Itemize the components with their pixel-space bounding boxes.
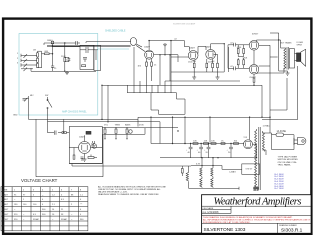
wire primary to switch	[262, 133, 294, 155]
wire input mix	[38, 51, 45, 68]
capacitor C8	[189, 144, 193, 158]
resistor R27	[243, 58, 245, 68]
svg-text:1M: 1M	[193, 61, 196, 63]
note blue voltage list	[275, 174, 285, 190]
svg-text:6V6GT: 6V6GT	[2, 214, 9, 216]
capacitor C1	[51, 66, 54, 71]
transformer T1 output	[281, 47, 295, 70]
wire PI plate runs	[171, 41, 229, 72]
tube V5	[249, 41, 259, 51]
svg-text:12AX7: 12AX7	[79, 136, 86, 139]
capacitor C2	[76, 41, 80, 45]
svg-text:330AC: 330AC	[33, 218, 40, 221]
tube V4A	[188, 51, 198, 61]
svg-text:READINGS TAKEN TO CHASSIS GROU: READINGS TAKEN TO CHASSIS GROUND. USE AT…	[98, 193, 160, 196]
svg-text:SHIELDED CABLE: SHIELDED CABLE	[105, 30, 126, 33]
wire lower collect buses	[102, 72, 262, 93]
wire speaker return	[262, 66, 298, 120]
svg-text:330AC: 330AC	[61, 218, 68, 221]
wire B plus verticals	[262, 66, 287, 117]
wire cathodes power	[253, 50, 255, 78]
tube V1 box	[80, 46, 94, 70]
resistor R19	[204, 143, 209, 145]
jack J1	[21, 54, 28, 58]
shield box chassis panel outline	[19, 34, 129, 116]
svg-text:470K: 470K	[237, 47, 242, 49]
svg-text:12AX7: 12AX7	[205, 45, 212, 48]
svg-text:SI303.R.1: SI303.R.1	[281, 227, 303, 233]
tube V7 rectifier	[244, 140, 253, 149]
resistor R11	[193, 63, 195, 67]
tube V4B	[206, 50, 216, 60]
svg-text:FOR REFERENCE ONLY AT YOUR OWN: FOR REFERENCE ONLY AT YOUR OWN RISK.	[203, 221, 251, 224]
svg-text:SILVERTONE 1303 AMP: SILVERTONE 1303 AMP	[173, 23, 196, 26]
wire PI staircase input	[149, 41, 189, 51]
jack J3	[21, 63, 28, 67]
jack J5	[23, 96, 29, 119]
voltage chart table	[1, 187, 88, 231]
resistor R2	[37, 58, 39, 62]
resistor R15	[62, 132, 66, 134]
note measurement text	[98, 185, 166, 196]
resistor R25	[253, 78, 255, 85]
resistor R5	[64, 43, 66, 71]
svg-text:117VAC: 117VAC	[263, 124, 271, 127]
voltage chart cell text	[2, 190, 84, 221]
svg-text:TYPE 1AU POWER: TYPE 1AU POWER	[278, 156, 298, 159]
capacitor C6 electrolytic	[86, 131, 91, 134]
svg-text:***: ***	[80, 204, 83, 206]
svg-text:ON VOLUME CON-: ON VOLUME CON-	[278, 162, 298, 164]
ground	[163, 43, 167, 46]
capacitor C7	[129, 130, 132, 133]
svg-text:1A FUSE: 1A FUSE	[277, 130, 287, 133]
resistor R21	[221, 143, 225, 145]
wire V2 pins	[147, 41, 179, 62]
wire V3 pins	[69, 135, 102, 158]
svg-text:SWITCH MOUNTED: SWITCH MOUNTED	[278, 159, 299, 161]
resistor R20	[211, 143, 216, 145]
title red disclaimer	[203, 216, 311, 224]
wire lower buses	[29, 117, 271, 143]
wire rectifier pins	[244, 117, 257, 158]
tube V2	[145, 50, 154, 59]
potentiometer VR1	[92, 141, 97, 148]
potentiometer VR5	[88, 155, 97, 159]
resistor R12	[206, 63, 208, 67]
wire screens	[259, 45, 278, 66]
fuse F1	[272, 133, 295, 136]
svg-text:6.3V: 6.3V	[196, 163, 201, 165]
wire grid feed	[49, 46, 80, 66]
ground	[65, 71, 69, 74]
resistor R28	[181, 166, 183, 176]
capacitor C11	[229, 144, 233, 158]
heater winding L4	[211, 179, 213, 187]
wire lower supply bus	[160, 157, 257, 159]
svg-text:DRAWING NUMBER: DRAWING NUMBER	[279, 224, 297, 227]
svg-text:12AX7: 12AX7	[2, 203, 9, 206]
svg-text:12AX7: 12AX7	[2, 198, 9, 201]
jack J4	[21, 68, 28, 72]
svg-text:TREB: TREB	[115, 125, 121, 127]
capacitor C13	[228, 45, 249, 70]
svg-text:5Y3GT: 5Y3GT	[2, 219, 9, 221]
heater winding L5	[186, 173, 188, 181]
wire stage2 verticals	[134, 47, 178, 85]
capacitor C12	[228, 43, 249, 47]
ground	[286, 71, 290, 75]
ground	[216, 72, 220, 79]
svg-text:6V6GT: 6V6GT	[252, 34, 259, 36]
power filter rail	[151, 143, 244, 145]
svg-text:TROL PANEL: TROL PANEL	[278, 164, 292, 167]
chassis hash symbol	[253, 186, 259, 190]
switch SW1	[47, 97, 52, 122]
resistor R3	[37, 63, 39, 67]
heater winding L3	[200, 179, 202, 187]
jack J2	[21, 59, 28, 63]
pots strip	[69, 128, 178, 164]
resistor R18	[193, 143, 198, 145]
heater winding L1	[200, 168, 202, 176]
wire preamp down verticals	[96, 50, 108, 122]
resistor R24	[237, 58, 239, 68]
svg-text:SPKR: SPKR	[297, 44, 303, 46]
terminal box	[94, 46, 101, 71]
ground	[192, 72, 196, 79]
resistor R16	[73, 155, 75, 159]
svg-text:SW: SW	[45, 95, 48, 97]
ground	[83, 158, 87, 161]
potentiometer VR2	[104, 127, 106, 133]
capacitor C14	[65, 57, 71, 61]
svg-text:B+7 160V: B+7 160V	[275, 188, 285, 190]
wire heater bottoms	[189, 177, 240, 190]
svg-text:GND: GND	[13, 115, 18, 117]
potentiometer VR3	[115, 127, 117, 133]
capacitor C10	[207, 144, 211, 158]
svg-text:470K: 470K	[243, 58, 248, 60]
svg-text:OUT TRANS: OUT TRANS	[280, 42, 292, 45]
svg-text:250K: 250K	[61, 56, 66, 58]
capacitor C4	[55, 131, 57, 135]
tube V6	[249, 65, 259, 75]
shield ellipse	[130, 38, 136, 46]
svg-text:SILVERTONE 1303: SILVERTONE 1303	[204, 227, 246, 233]
svg-text:rev. 1/31/2008: rev. 1/31/2008	[203, 211, 219, 214]
svg-text:12AX7: 12AX7	[2, 193, 9, 196]
capacitor C5	[92, 141, 94, 146]
component labels tiny	[13, 34, 303, 174]
wire ground return left	[36, 119, 191, 176]
wire filter verticals	[151, 117, 210, 143]
wire tone stage feed	[48, 119, 70, 132]
svg-text:1M: 1M	[33, 50, 36, 52]
heater winding L2	[211, 168, 213, 176]
svg-text:Weatherford Amplifiers: Weatherford Amplifiers	[214, 196, 302, 207]
resistor R8	[151, 62, 153, 66]
svg-text:470K: 470K	[139, 125, 144, 127]
capacitor C15	[81, 157, 84, 161]
resistor R22	[234, 143, 239, 145]
wire B+ center tap	[270, 33, 288, 71]
wire shielded pair	[47, 42, 145, 52]
resistor R1	[37, 53, 39, 57]
svg-text:6V6GT: 6V6GT	[250, 77, 257, 79]
wire heater harness top	[189, 158, 242, 173]
resistor R13	[212, 63, 214, 67]
capacitor C16	[51, 41, 53, 46]
wire ground bus preamp	[31, 68, 96, 71]
svg-text:MIC: MIC	[30, 95, 34, 97]
wire step to volume	[151, 93, 185, 115]
wire PI cathodes	[171, 54, 224, 72]
plug P1	[294, 137, 306, 145]
chassis box rectifier	[242, 164, 260, 174]
svg-text:1.5K: 1.5K	[66, 59, 71, 61]
svg-text:5Y3 GT: 5Y3 GT	[246, 169, 254, 171]
capacitor C3	[83, 58, 87, 63]
svg-text:VOLTAGE CHART: VOLTAGE CHART	[21, 178, 58, 183]
svg-text:12AX7: 12AX7	[144, 46, 151, 49]
svg-text:TUBE: TUBE	[2, 190, 8, 192]
resistor R23	[237, 45, 239, 57]
svg-text:BASS: BASS	[125, 124, 131, 127]
potentiometer VR4	[126, 127, 128, 133]
resistor R6	[82, 65, 86, 67]
wire plate run	[44, 43, 76, 45]
resistor R4	[45, 53, 50, 55]
svg-text:AMP CHASSIS PANEL: AMP CHASSIS PANEL	[62, 110, 87, 113]
svg-text:C-MAG: C-MAG	[229, 170, 236, 173]
wire jack leads	[28, 56, 37, 69]
capacitor C9	[199, 144, 203, 158]
tube V3	[79, 142, 91, 154]
note power switch text	[278, 156, 299, 167]
resistor R7	[146, 62, 148, 66]
svg-text:12AX7: 12AX7	[189, 47, 196, 50]
title block frame	[202, 195, 312, 234]
resistor R14	[217, 63, 219, 67]
svg-text:6V6GT: 6V6GT	[2, 209, 9, 211]
wire to shield	[94, 49, 98, 51]
resistor R26	[238, 45, 244, 57]
svg-text:1M: 1M	[212, 61, 215, 63]
speaker SPK1	[295, 49, 306, 66]
tone stage box	[69, 127, 102, 164]
wire power tube plates	[257, 40, 285, 74]
svg-text:1MEG: 1MEG	[47, 40, 53, 42]
svg-text:FILE NAME: FILE NAME	[203, 207, 214, 210]
transformer T2 power	[255, 127, 265, 190]
